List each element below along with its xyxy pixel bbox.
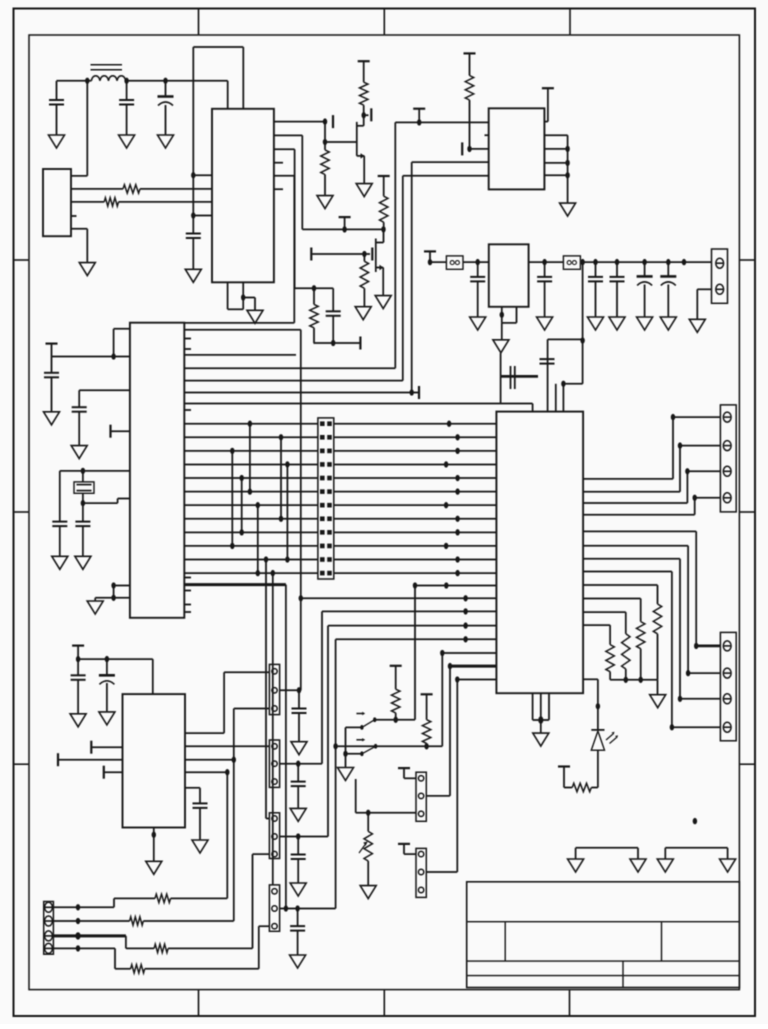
wire rail to U1 top pin [227,81,229,109]
resistor R6 [363,254,365,261]
wire MCU pin to lower bus [184,329,300,331]
ground [588,317,604,330]
wire U1 pin descending bus a [274,134,302,136]
wire U4 pin m1 [301,597,497,599]
resistor R13 [155,894,171,902]
wire U4 pin m4 [336,638,497,640]
node [565,146,569,152]
node junction at C3 [163,78,167,84]
wire to U2 pin [470,148,489,150]
pin stub U1 b [274,188,283,190]
power flag VIN [424,250,436,252]
node U1 gnd pin [241,294,245,300]
ground [290,808,306,821]
pin [272,744,277,749]
ground [338,768,354,781]
wire row1 riser [226,772,228,898]
wire U4 pin r3 [583,611,626,613]
node [638,677,642,683]
wire U5 long input [57,753,59,766]
resistor R11 [421,693,433,695]
ground [49,135,65,148]
resistor RN2 [637,622,645,649]
ground [52,556,68,569]
pin [272,924,277,929]
ground [609,317,625,330]
node Q2 drain net [381,226,385,232]
wire input to U2 [395,121,488,123]
border zone tick top 3 [569,9,571,36]
node [81,468,85,474]
inductor L1 ferrite core lines [91,64,123,66]
bar terminal [310,248,312,261]
power flag P8 [398,843,410,845]
border zone tick left 3 [14,763,30,765]
capacitor C10 [540,358,555,360]
ground [375,296,391,309]
wire rail 4 [580,261,711,263]
wire U4 to P5 pin4 [583,514,695,516]
connector P1 [269,664,279,714]
wire U4 to P6 pin4 [583,571,672,573]
resistor R4 [321,150,329,175]
capacitor C15 [477,262,479,277]
wire J2 row4 [53,947,115,949]
wire MCU pin row f to U4 [184,403,533,405]
node [561,381,565,387]
resistor R9 [558,765,570,767]
pin [723,668,731,678]
resistor R3 pull-up [358,60,370,62]
node [111,582,115,588]
wire P4 pin3 [259,925,270,927]
ground [146,861,162,874]
wire MCU vdd pins [114,328,130,330]
resistor R14 [130,917,144,925]
pin [723,722,731,732]
gate bar terminal [332,115,334,128]
wire U5 right pin y760 [185,759,234,761]
ground [71,446,87,459]
pin [418,793,423,798]
capacitor C12 [77,659,79,675]
ground [630,859,646,872]
node [299,595,303,601]
capacitor C16 [544,262,546,277]
power flag [413,108,425,110]
resistor R16 [131,965,145,973]
wire U4 to P5 pin3 [583,502,687,504]
wire J1 pin1 to rail [71,175,87,177]
bar terminal U5 pin b [103,766,105,779]
border zone tick bottom 2 [383,990,385,1016]
border zone tick left 1 [14,259,30,261]
transistor Q2 [383,229,385,242]
bar terminal [461,142,463,155]
pin [272,816,277,821]
switch SW2 [360,751,363,756]
connector J1 [43,169,71,236]
U1 bottom pins notch [227,282,229,309]
wire bus U2 to MCU 2 [412,161,489,163]
pin [723,412,731,422]
power flag P7 [398,767,410,769]
wire LED cathode [597,750,599,787]
ground [657,680,659,695]
title block row line 2 [467,960,740,962]
wire branch [295,287,334,289]
pin stub J1 pin4 [71,215,77,217]
connector P3 [269,813,279,859]
pin [45,916,53,926]
node [366,810,370,816]
pin [723,641,731,651]
wire MCU pin row b [184,354,296,356]
node [333,743,337,749]
IC U4 [496,412,583,694]
border zone tick right 2 [739,511,755,513]
ground [637,317,653,330]
wire U1 pin to MCU via left [274,175,294,177]
power flag [339,216,351,218]
wire U1 gnd branch [243,297,255,299]
resistor RN3 [622,634,630,669]
wire U4 to P5 pin2 [583,491,680,493]
ground [158,135,174,148]
resistor R1 [123,185,140,193]
wire U4 pin m3 [328,625,496,627]
wire rail 2 [463,261,489,263]
wire P4 pin2 cap [280,908,336,910]
ground [44,412,60,425]
node [331,340,335,346]
connector P2 [269,740,279,787]
title block divider a [504,922,506,961]
wire U4 pin m5 [442,652,496,654]
capacitor C7 [79,389,130,391]
pin [272,889,277,894]
wire J1 pin2 to U1 [71,188,123,190]
wire U4 to P6 pin2 [583,545,688,547]
ground [290,955,306,968]
pin [272,761,277,766]
crystal Y1 net bottom [82,493,84,503]
ferrite bead FB2 [563,256,580,269]
IC U2 [489,108,545,189]
capacitor C18 [616,262,618,277]
node [682,259,686,265]
pin [723,466,731,476]
wire P1 pin2 cap [280,689,301,691]
title block divider b [661,922,663,961]
node [580,337,584,343]
ground [99,712,115,725]
capacitor C17 [595,262,597,277]
pin stubs MCU right edge [184,338,191,340]
pin [272,706,277,711]
pin stub U2 [485,134,489,136]
node [565,160,569,166]
node [81,500,85,506]
wire U4 to P6 pin1 [583,530,696,532]
ground [87,601,103,614]
wire J2 row2 [53,920,129,922]
capacitor C2 [126,81,128,100]
ground [537,317,553,330]
border zone tick right 3 [739,763,755,765]
resistor R2 [104,198,118,206]
pin [418,811,423,816]
wire J1 pin3 to U1 [71,201,104,203]
IC U1 [212,109,274,282]
trimmer R12 [367,813,369,832]
ground [560,203,576,216]
switch SW1 [360,725,363,730]
U6 gnd notch [501,307,503,323]
resistor R7 [313,288,315,304]
border zone tick top 2 [383,9,385,36]
ground [290,883,306,896]
wire bottom rail [314,342,361,344]
node [666,259,670,265]
title block [467,882,740,988]
pin [723,441,731,451]
ground pair A [576,847,638,849]
wire MCU pin row e [184,392,412,394]
capacitor C14 [185,787,200,789]
node junction right of L1 [124,78,128,84]
node [624,677,628,683]
connector P6 [720,632,736,740]
capacitor C3 polarized [165,81,167,97]
capacitor C13 polarized [106,659,108,675]
ground [501,323,503,340]
pin [272,851,277,856]
border zone tick bottom 3 [569,990,571,1016]
capacitor C11 rotated [501,375,538,378]
ground [291,742,307,755]
pin [716,258,724,268]
node [105,656,109,662]
ground [660,317,676,330]
wire weave jogs [231,451,233,546]
ground [540,720,542,733]
reset pin bar [109,425,111,438]
wire U4 to LED [583,678,598,680]
pin [45,902,53,912]
pin [418,869,423,874]
crystal Y1 net top [60,470,130,472]
pin [723,493,731,503]
transistor Q1 [364,114,369,116]
ground [689,319,705,332]
pin [418,887,423,892]
node [417,119,421,125]
ground [247,310,263,323]
ground [75,556,91,569]
wire U4 pin m2 [322,610,496,612]
ground [317,196,333,209]
capacitor C19 polarized [644,262,646,276]
capacitor C4 [186,233,201,235]
resistor RN1 [653,604,661,634]
node stray [693,818,697,824]
resistor R8 [464,52,476,54]
pin [272,834,277,839]
node [343,751,347,757]
capacitor C5 [332,288,334,311]
ground [119,135,135,148]
capacitor C9 [82,503,84,521]
wire P9 pin2 gnd [697,288,711,290]
bar terminal U5 pin a [90,741,92,754]
wire U4 pin m7 [457,679,496,681]
ground [185,269,201,282]
wire trimmer net [356,812,416,814]
pin [418,776,423,781]
wire J1 pin5 to ground [71,228,87,230]
wire U2 right pins to gnd bus [544,134,567,136]
wire P1 pin3 [234,708,270,710]
border zone tick right 1 [739,259,755,261]
wire U4 pin m6 bold [450,665,496,668]
node [342,226,346,232]
node [542,259,546,265]
border zone tick left 2 [14,511,30,513]
wire U4 to P5 pin1 [583,478,673,480]
wire U5 right pin y772 [185,771,227,773]
resistor R5 pull-up [378,175,390,177]
wire bus U2 to MCU 1 [394,122,396,368]
wire P3 pin2 cap [280,836,328,838]
wire MCU gnd pins [114,585,130,587]
capacitor C1 [56,81,58,100]
crystal Y1 [74,482,94,493]
pin [272,779,277,784]
ground pair B [665,847,727,849]
node on U1 left rail [191,172,195,178]
pin [45,943,53,953]
node [580,259,584,265]
connector J2 [44,902,54,955]
ground [79,263,95,276]
wire to U1 pin [193,174,212,176]
wire U4 pin m0 [415,585,496,587]
title block row line 3 [467,975,740,977]
wire row11 branch down to connector P4 [271,570,275,576]
wire Q1 source net [324,122,326,142]
node [409,389,413,395]
wire U4 pin r2 [583,598,641,600]
connector P4 [269,885,279,931]
connector P5 [720,405,736,512]
wire rail [430,261,446,263]
wire bypass loop [500,376,502,403]
node Q1 gate [361,112,365,118]
regulator U6 [489,244,529,306]
capacitor C6 [51,357,53,373]
title block row line 1 [467,921,740,923]
node [362,251,366,257]
LED D1 [591,729,604,731]
pin [272,688,277,693]
ground [657,859,673,872]
node [596,703,600,709]
wire P2 pin2 cap [280,763,322,765]
wire U5 gnd pin [153,828,155,862]
bar terminal [359,337,361,350]
wire U4 pin r4 [583,624,610,626]
IC U3 MCU [130,323,184,618]
wire U1 pin descending bus b [274,148,295,150]
wire to U1 pin 2 [193,215,212,217]
wire bypass branch [582,341,584,384]
inductor L1 coil [91,76,125,81]
wire long net right of P2 [336,745,443,747]
ground flag above [500,353,502,376]
pin [272,669,277,674]
power flag [46,343,58,345]
power box above U1 [193,46,243,48]
bar terminal [412,392,419,394]
title block divider c [622,961,624,987]
wire 3V3 feed down to U4 [582,262,584,339]
node on U1 left rail 2 [191,212,195,218]
node [111,595,115,601]
resistor R15 [154,944,168,952]
ferrite bead FB1 [446,256,463,269]
power flag [72,644,84,646]
wire U4 to P6 pin3 [583,558,680,560]
node [642,259,646,265]
border zone tick bottom 1 [198,990,200,1016]
node [538,716,543,723]
node [424,743,428,749]
border zone tick top 1 [198,9,200,36]
wire MCU pin row d [184,380,403,382]
pin [716,284,724,294]
ground [720,859,736,872]
wire power rail top-left [57,80,92,82]
wire bus header to U4 rows [334,423,497,425]
node [111,353,115,359]
node [593,259,597,265]
connector P8 [416,848,426,897]
node [393,717,397,723]
power bar VCC U2 [542,87,554,89]
ground [470,317,486,330]
pin [723,694,731,704]
wire Q2 gate net [311,253,370,255]
pin stub U1 [274,162,283,164]
ground [70,714,86,727]
resistor RN4 [606,645,614,672]
wire rail 3 [529,261,564,263]
U4 ground notch [532,693,534,720]
resistor R10 [390,665,402,667]
pin [418,851,423,856]
wire P8 pin2 [426,871,457,873]
node [76,656,80,662]
IC U5 [123,694,186,827]
ground [360,886,376,899]
node junction left of L1 [85,78,89,84]
node [475,259,479,265]
wire row10 branch down to connector P3 [264,556,268,562]
wire U5 vdd [152,659,154,694]
wire MCU pin row c [184,367,395,369]
wire bus U2 to MCU 3 [403,175,489,177]
